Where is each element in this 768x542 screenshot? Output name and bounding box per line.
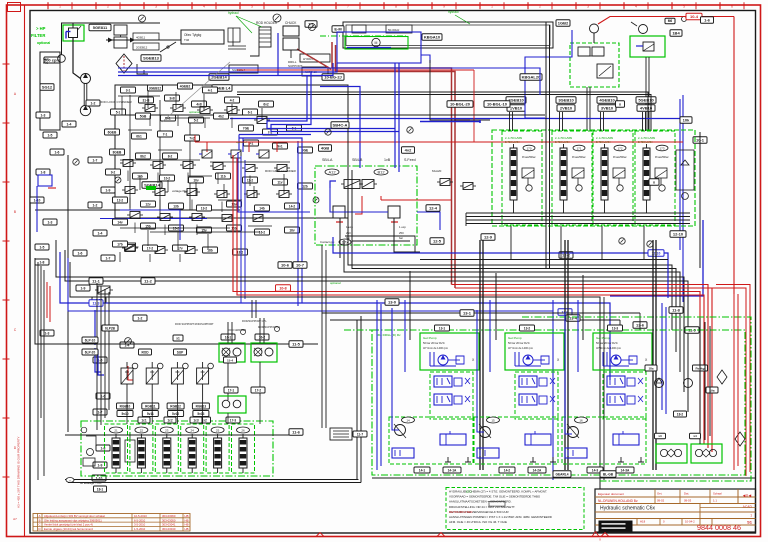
svg-text:6-1: 6-1 [248,110,253,114]
svg-text:50 bar 20 bar Rv%: 50 bar 20 bar Rv% [423,341,445,345]
far right red verticals [733,294,735,470]
svg-text:12-9: 12-9 [484,235,493,240]
long black top to banks [509,112,511,131]
pump group 1 valve dashed box [430,372,473,419]
pump group 1 top pill [435,325,450,331]
svg-text:SUPPORT: SUPPORT [288,64,303,68]
svg-text:RGB12: RGB12 [170,404,181,408]
svg-text:3v8: 3v8 [169,96,175,100]
cluster big rect [115,85,348,218]
svg-text:14: 14 [406,419,410,423]
cluster extra wires [121,96,123,115]
center valve cluster [344,180,360,189]
blue drop from motor box [421,55,430,63]
svg-text:8-2: 8-2 [168,154,173,158]
valve bank 3 oval [614,145,626,151]
far right small pills [655,433,666,439]
bus black k6b [603,297,605,480]
svg-text:10-2: 10-2 [164,176,171,180]
center red inner line [355,196,362,214]
left edge verticals [37,262,39,480]
grip cylinders green box A [219,343,245,362]
center square marks [336,221,343,223]
svg-text:17-2: 17-2 [255,388,262,392]
cluster bottom valve row [125,245,135,252]
svg-text:17-2: 17-2 [147,246,154,250]
svg-text:14-2A: 14-2A [533,468,542,472]
pill left of title A [553,471,571,478]
svg-text:5GE811: 5GE811 [93,25,108,30]
blue run mid top [118,63,337,72]
svg-text:10-6: 10-6 [281,263,290,268]
svg-text:6LP2B: 6LP2B [105,326,116,330]
svg-text:4: 4 [203,5,205,9]
pump group 3 riser black [652,240,654,470]
svg-text:KBGAL20: KBGAL20 [522,75,541,80]
svg-text:170: 170 [526,147,531,151]
svg-text:HYDRAULIEKSCHEMA (27) = 4 ST.: HYDRAULIEKSCHEMA (27) = 4 ST.E. GEMONTEE… [449,490,547,494]
oil spec pill [44,57,60,63]
svg-text:Get Pump: Get Pump [596,336,610,340]
blue staircase v2 [271,72,399,132]
svg-text:23: 23 [165,429,169,433]
svg-text:10-04-2: 10-04-2 [685,520,695,524]
pump component stack [114,25,127,35]
top right pills bank headers [506,97,526,104]
thin red rect right [473,70,475,142]
gauge top small [273,14,281,22]
cylinder cell 6 oval [237,427,250,433]
svg-text:18-1: 18-1 [97,487,104,491]
svg-text:11-2: 11-2 [144,279,153,284]
black jog lines below center box [345,236,485,253]
svg-text:1B4: 1B4 [672,31,680,36]
svg-text:SB4-B: SB4-B [352,158,363,162]
svg-text:9GE: 9GE [302,148,308,152]
hp unit green solid box [630,36,665,57]
pill left of title B [600,471,616,478]
svg-text:A12: A12 [328,170,336,175]
svg-text:4b2: 4b2 [218,114,224,118]
svg-text:Pmax250bar: Pmax250bar [613,156,627,159]
pill upper right corner [701,17,714,24]
blue left drops [94,310,96,345]
valve bank 1 wires [513,200,515,213]
pump group 2 cylinder [525,434,551,445]
grip circles small [241,330,246,335]
svg-text:13v: 13v [231,202,237,206]
svg-text:1-3: 1-3 [41,113,46,117]
svg-text:BL-GB: BL-GB [603,473,614,477]
cylinder cell 6 body [239,438,247,468]
riser top pair [251,300,253,318]
bus black k6 [70,262,600,489]
svg-text:Eerste uitgave (10-04) tek.her: Eerste uitgave (10-04) tek.hernummerd [44,527,93,531]
pump group 2 oval label [487,417,500,423]
svg-text:hydraul: hydraul [448,10,459,14]
svg-text:10v: 10v [193,178,199,182]
svg-text:DRUKAFSTELLING: NR 24 = MAX: DRUKAFSTELLING: NR 24 = MAX 210 BAR/SETT… [449,505,515,509]
svg-text:3/7 l/min de 1400 rpm: 3/7 l/min de 1400 rpm [423,346,448,350]
red feed left end vertical [194,135,196,142]
cylinder cell 3 stem [166,434,168,438]
bottom-left big dashdot box [81,421,273,476]
svg-text:3/7 l/min de 1400 rpm: 3/7 l/min de 1400 rpm [596,346,621,350]
svg-text:RGB13: RGB13 [196,404,207,408]
grip vertical wires [227,322,229,343]
svg-text:14-3A: 14-3A [621,468,630,472]
red triangle bottom mid2 [437,533,445,537]
svg-text:50 bar 20 bar Rv%: 50 bar 20 bar Rv% [596,341,618,345]
blue control rect [337,32,421,63]
pump circle A [58,55,66,63]
svg-text:◄I◄: ◄I◄ [742,493,752,498]
pill left of banks [484,101,510,108]
pump group 3 pump symbol [611,355,621,365]
svg-text:AFM. OLIE = 46 LTR/CA. ISO VG: AFM. OLIE = 46 LTR/CA. ISO VG 46. T OLIE [449,520,507,524]
pump shaft double line [83,84,85,106]
green small filled rect [146,186,156,190]
black pair y92 [237,92,648,131]
title block column lines top rows [654,489,656,504]
svg-text:12v: 12v [145,202,151,206]
svg-text:x1: x1 [176,336,180,340]
bank bottom left pill [481,234,495,241]
svg-text:1-5: 1-5 [40,245,45,249]
center oval bottom [339,239,351,245]
grip cylinders green box B [251,343,277,362]
small box 2GEB12 [133,43,159,50]
motor label pill right [422,34,442,41]
pump group 1 lower dashed box [389,417,473,464]
svg-text:10-4: 10-4 [690,14,699,19]
leak oval and text [66,478,74,483]
svg-text:18a: 18a [648,366,653,370]
bus black k4b [65,250,688,412]
svg-text:31-B: 31-B [143,98,151,102]
left vertical main wire [67,155,69,432]
svg-text:RETOURFILTER: RETOURFILTER [449,510,473,514]
valve bank 3 wires [604,200,606,213]
svg-text:6LP-20: 6LP-20 [85,350,96,354]
svg-text:12b: 12b [302,184,308,188]
blue inner connect [330,188,388,212]
svg-text:13-0: 13-0 [388,300,397,305]
svg-text:Get.: Get. [657,492,663,496]
svg-text:6: 6 [731,5,733,9]
svg-text:17-1: 17-1 [228,388,235,392]
cylinder cell 5 oval [211,427,224,433]
motor circle [372,38,380,46]
black box small mid [330,428,352,440]
cylinder cell 2 oval [135,427,148,433]
title block right column [699,504,701,526]
svg-text:50 bar 20 bar Rv%: 50 bar 20 bar Rv% [508,341,530,345]
svg-text:ROD/SUPPORT CYL: ROD/SUPPORT CYL [242,319,267,323]
bank lower horizontals [420,259,668,261]
thick red branch [455,119,470,121]
pump group 1 main pump circle [395,425,406,436]
red line top right [598,17,734,25]
left bundle verticals x97 [96,283,98,430]
bus k5 pill [289,341,303,348]
svg-text:5v10: 5v10 [121,412,128,416]
pump group 1 blue riser [404,300,406,372]
top pills row [305,21,317,28]
thin red rect top [237,69,474,71]
svg-text:bar: bar [399,236,403,240]
pill 12-4 [426,205,440,212]
svg-text:303-03040: 303-03040 [162,527,176,531]
feed valve 2 wires [151,384,153,400]
svg-text:1-2: 1-2 [138,316,143,320]
valve bank right components [676,150,694,190]
wire filter down to pump [73,38,81,79]
svg-text:5: 5 [683,5,685,9]
revision table row lines [33,517,190,519]
center oval A [325,169,339,175]
blue branch y86 [320,87,360,169]
svg-text:S.Feed: S.Feed [404,158,416,162]
svg-text:18-2: 18-2 [237,250,244,254]
valve bank 1 cell [502,131,542,225]
blue feed top right [525,30,572,118]
cylinder cell 4 stem [191,434,193,438]
far right verticals [699,318,701,444]
center small squares [333,206,345,218]
svg-text:A7: A7 [13,517,17,521]
motor green box [345,37,408,50]
revision table outer [33,514,190,532]
blue mid vertical pair [240,156,242,303]
long vertical pair rods [545,22,547,268]
cylinder cell 2 body [137,438,145,468]
small circle M6 top [682,17,687,22]
svg-text:11-5: 11-5 [292,342,301,347]
pump area left blue pair [376,300,378,470]
svg-text:2: 2 [539,5,541,9]
svg-text:Pmax250bar: Pmax250bar [522,156,536,159]
valve bank 1 circle [526,185,532,191]
left tank bottom small [125,440,135,462]
left small pills column [86,100,100,106]
far right filter A symbols [660,449,667,456]
svg-text:17-3: 17-3 [230,418,237,422]
notes highlight box [489,502,505,507]
svg-text:4-2: 4-2 [230,98,235,102]
blue verticals into center box [394,63,396,168]
svg-text:14-1: 14-1 [419,468,426,472]
main pump circle [80,105,90,115]
pump group 3 header green box [593,333,652,370]
far right component pills [645,365,657,371]
pump group 2 main pump circle [480,427,491,438]
pump group 3 lower dashed box [562,417,646,464]
valve bank 2 spool [560,148,567,200]
wire filter to label [73,23,88,28]
svg-text:250: 250 [399,231,404,235]
svg-text:SG12: SG12 [42,85,53,90]
bottom-left upper pills [139,349,152,355]
svg-text:ROD/SUPPORT(x): ROD/SUPPORT(x) [258,325,280,329]
svg-text:1-4: 1-4 [98,231,103,235]
svg-text:09-02: 09-02 [657,499,665,503]
svg-text:E-M: E-M [334,27,342,32]
DR diagonal from chuck [297,49,331,69]
bus black k5 lower [35,258,318,344]
svg-text:ROD GRIPPER: ROD GRIPPER [228,328,246,332]
left cell pump bits [87,449,94,456]
svg-text:1-5-2010: 1-5-2010 [134,527,146,531]
cluster horiz stubs [128,129,152,131]
svg-text:1-9: 1-9 [98,463,103,467]
svg-text:10-BGL-20: 10-BGL-20 [450,102,471,107]
svg-text:9: 9 [443,5,445,9]
cylinder cell 4 oval [186,427,199,433]
svg-text:1-7: 1-7 [98,410,103,414]
acc pump circle [590,24,599,33]
HP filter valve symbol [69,28,78,38]
svg-text:1-9: 1-9 [81,286,86,290]
svg-text:ROD SUPPORT ROD/SUPPORT: ROD SUPPORT ROD/SUPPORT [175,322,214,326]
cylinder cell 3 body [163,438,171,468]
black y115 extension [355,114,545,116]
svg-text:1-2: 1-2 [91,101,96,105]
feed valve 2 [146,368,158,384]
breather symbol [228,28,246,49]
bottom-left sub pills [138,417,150,423]
cylinder cell 1 oval [110,427,123,433]
tank rectangle [40,52,60,130]
pump group 1 small box [392,448,414,458]
pump group 3 valve A [607,376,625,387]
pump group 3 main pump circle [568,427,579,438]
svg-text:SUP: SUP [177,350,184,354]
accumulator sub valve [597,64,613,78]
motor box inner border [346,25,550,46]
svg-text:1 exp: 1 exp [399,225,406,229]
vertical risers bottom-left [227,413,229,424]
svg-text:M: M [375,41,378,45]
cylinder cell 4 box [181,424,204,473]
valve bank 1 relief valve [522,168,534,178]
motor pill [332,26,344,33]
svg-text:FILTER: FILTER [31,33,45,38]
long wire bottom cells [65,434,290,436]
bottom mid pills [385,299,399,306]
svg-text:x4: x4 [693,434,697,438]
corner red box top-left [8,3,21,12]
svg-text:3: 3 [155,5,157,9]
cluster connector stubs [149,116,151,127]
svg-text:1-7: 1-7 [93,158,98,162]
svg-text:2: 2 [107,5,109,9]
green dash top extension [344,329,372,331]
bank pill bottom [670,231,686,238]
cylinder cell 4 body [188,438,196,468]
svg-text:1-6: 1-6 [78,251,83,255]
mid pills left group [224,357,237,363]
svg-text:SB4-A: SB4-A [322,158,333,162]
svg-text:12-5: 12-5 [433,239,442,244]
svg-text:1c2: 1c2 [167,418,173,422]
pump group 2 blue riser [489,300,491,372]
bank bus left corner [465,213,467,226]
svg-text:7: 7 [347,5,349,9]
hp unit valve [643,42,654,51]
svg-text:ROD HOLDER: ROD HOLDER [256,21,278,25]
svg-text:4GEB10: 4GEB10 [599,98,615,103]
pill 2-2 [212,85,232,92]
blue vertical right [682,95,684,302]
svg-text:11-3: 11-3 [93,302,100,306]
accumulator group dashed box [570,43,619,87]
cylinder cell 1 body [112,438,120,468]
svg-text:17b: 17b [117,242,123,246]
svg-text:5-1: 5-1 [116,110,121,114]
left ruler ticks [3,63,10,65]
wire center box down [339,218,341,258]
pill 2-1 [209,74,229,81]
svg-text:MvA20: MvA20 [432,169,442,173]
pump black top wires [409,271,411,340]
filter label pill SGEB11 [89,24,111,31]
svg-text:1-8: 1-8 [40,260,45,264]
pill mid right [693,137,707,144]
title block row lines [595,496,756,498]
svg-text:AANSLUITINGEN POMPEN = P/ST 1: AANSLUITINGEN POMPEN = P/ST 1 X 1.1/2 BS… [449,515,552,519]
valve bank 2 relief valve [572,168,584,178]
svg-text:5: 5 [251,5,253,9]
cylinder cell 3 oval [160,427,173,433]
motor inner rects [352,25,366,33]
svg-text:11-1: 11-1 [92,279,101,284]
feed valve 1 wires [126,384,128,400]
svg-text:optional: optional [330,281,341,285]
bank blue bottom right [610,220,703,296]
feed valve 3 [171,368,183,384]
svg-text:1-6: 1-6 [55,150,60,154]
thick red supply line a [332,42,452,285]
filter diamond [116,54,132,73]
mid cluster valves row4 [130,212,140,219]
valve bank 4 spool [643,148,650,200]
bus red far pair [712,288,746,476]
cylinder cell 2 stem [140,434,142,438]
svg-text:5-2: 5-2 [194,118,199,122]
svg-text:1-7: 1-7 [106,256,111,260]
feed valve 4 circle [208,363,214,369]
svg-text:1: 1 [491,5,493,9]
oil type box [181,30,224,44]
svg-text:6: 6 [299,5,301,9]
svg-text:26: 26 [241,429,245,433]
bank bottom drops [510,226,512,260]
svg-text:1:1: 1:1 [713,499,717,503]
svg-text:GEARL4: GEARL4 [556,473,569,477]
red triangle bottom mid [316,533,324,537]
far right relief components [655,379,664,388]
svg-text:13-2: 13-2 [201,206,208,210]
svg-text:P/N: P/N [43,61,48,65]
blue staircase h5 [239,134,311,136]
right pills column [669,307,683,314]
svg-text:50-60Hz: 50-60Hz [388,28,400,32]
check valve diagonal [160,42,176,52]
long blue from left [118,68,540,95]
valve bank outer dashed box [492,130,695,226]
far right filter B symbols [695,449,702,456]
